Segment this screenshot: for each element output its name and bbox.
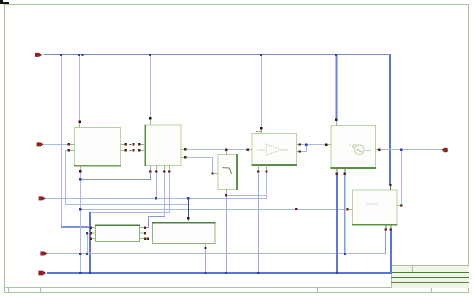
wire: U1 pin B elbow down x=65.5 xyxy=(65,150,69,151)
wire: vertical x=226 sat pin to bottom bus xyxy=(226,195,227,273)
wire: net arrow3 y=254 xyxy=(47,253,386,254)
block U6 xyxy=(352,190,398,226)
wire: x=61 elbow to box5 pin1 y=227 xyxy=(61,226,91,228)
wire: saturation bottom pin spur y=195 xyxy=(226,195,267,196)
dark top pin dots xyxy=(79,117,392,219)
input port arrow y=273 (bus) xyxy=(38,271,46,276)
wire: net L2 y=204 xyxy=(65,204,188,205)
U5 pins xyxy=(336,120,337,126)
block B6 xyxy=(152,222,216,244)
wire: bottom bus y=273 xyxy=(47,272,392,274)
corner text mark xyxy=(0,0,9,4)
wire: top bus horizontal y=55 xyxy=(44,54,391,55)
B5 pins xyxy=(91,227,96,228)
wire: vertical x=336 to U5 top pin xyxy=(336,55,338,119)
wire: net L3 y=209 to U6 left pin xyxy=(80,209,348,210)
mystery junction dot on L3 xyxy=(295,208,297,210)
junction dots on top bus xyxy=(60,54,337,56)
title block xyxy=(391,265,469,288)
U5 bottom pins olive xyxy=(336,169,337,174)
U6 top/bottom pins olive xyxy=(390,185,391,190)
wire: U2 right pin2 elbow to sat left pin xyxy=(185,157,213,158)
wire: U2 pin7 to box5 right pin1 xyxy=(164,172,165,217)
wire: IN1 to U1 pin A y=144 xyxy=(44,144,68,145)
wire: U3 bottom pin1 to bottom bus xyxy=(258,171,259,273)
input port arrow y=254 xyxy=(40,252,47,256)
block SAT (limiter) xyxy=(218,154,238,190)
wire: net L1 y=198 arrow2 to x=266 xyxy=(44,198,267,199)
U1 pins xyxy=(79,122,80,128)
wire: U2 pin8 to thick vertical x=89 xyxy=(169,172,170,213)
wire: vertical x=80 U1 bottom pin to bottom bus xyxy=(80,171,81,273)
wire: box6 bottom pin to bottom bus xyxy=(205,248,206,273)
wire: box5 left pin2 to x=86.8 vertical xyxy=(87,233,91,234)
machine block U5 (circle symbol) xyxy=(331,126,377,169)
wire: vertical x=150 to U2 top pin xyxy=(150,55,151,118)
wire: vertical x=61 from top bus xyxy=(61,55,62,227)
wire: U2 right pin1 to U3 input y=149.7 xyxy=(185,149,248,150)
output port at right xyxy=(442,149,444,151)
B6 pins xyxy=(188,218,189,222)
block U2 xyxy=(144,125,181,166)
wire: U5 bottom pin2 to arrow3 net xyxy=(344,174,345,254)
SAT pins xyxy=(226,150,227,155)
wire: U5 bottom pin1 thick to bottom bus xyxy=(336,174,338,273)
wire: U2 pin6 down to L1 xyxy=(156,172,157,199)
wire: box6 top pin to L1 xyxy=(188,198,189,218)
wire: U6 bottom pin2 thick to bottom bus xyxy=(390,229,392,274)
wire: output net y=149.7 xyxy=(379,149,442,150)
wire: vertical x=261 to U3 top pin xyxy=(261,55,262,128)
wire: vertical x=266.5 L1 up to U3 bottom pin2 xyxy=(266,171,267,199)
wire: U3 out pin1 to U5 left pin xyxy=(300,144,327,145)
wire: thick vertical x=390 to U6 top pin xyxy=(389,55,391,185)
input port arrow y=198 xyxy=(39,196,46,200)
op-amp U3 xyxy=(252,131,298,166)
wire: vertical x=401 to U6 right pin xyxy=(401,149,402,206)
U2 pins xyxy=(150,119,151,125)
wire: vertical x=79 to U1 top pin xyxy=(79,55,80,121)
block U1 xyxy=(74,128,121,167)
block B5 xyxy=(95,225,140,242)
input port arrow y=144 xyxy=(37,142,44,146)
wire: U3 out pin2 tie xyxy=(306,144,307,152)
input port arrow y=55 xyxy=(35,53,42,57)
wire: U6 bottom pin1 to arrow3 net xyxy=(385,229,386,254)
wire: U2 pin5 elbow y=179 xyxy=(150,172,151,180)
U6 pins xyxy=(348,209,353,210)
U3 pins xyxy=(261,129,262,134)
inter-block pin dashes U1->U2 xyxy=(129,144,131,151)
